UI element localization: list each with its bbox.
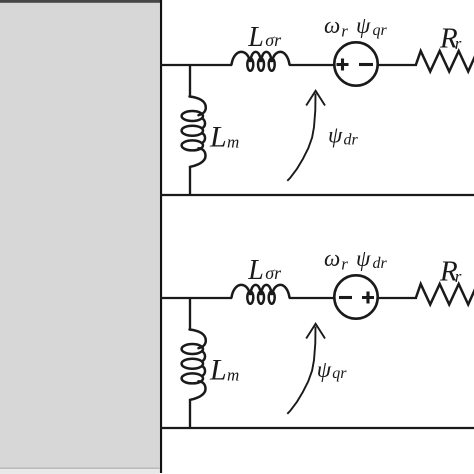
svg-text:m: m (227, 132, 239, 151)
wire: Lm top stub (189, 297, 191, 330)
wire: Lm top stub (189, 64, 191, 97)
inductor Lσr (232, 52, 290, 71)
panel bottom light strip (0, 469, 160, 474)
wire: Lm bottom stub (189, 167, 191, 196)
inductor Lm (182, 97, 206, 167)
svg-text:ψ: ψ (317, 357, 332, 382)
svg-text:qr: qr (373, 22, 388, 39)
svg-text:ω: ω (324, 246, 340, 271)
svg-text:r: r (455, 34, 462, 53)
svg-text:L: L (247, 255, 264, 286)
plus sign (right) (362, 292, 374, 304)
svg-text:r: r (341, 21, 348, 40)
wire: left segment of top rail (160, 297, 232, 299)
wire: left segment of top rail (160, 64, 232, 66)
svg-text:L: L (209, 121, 227, 154)
svg-text:σr: σr (265, 30, 282, 50)
svg-text:r: r (455, 267, 462, 286)
svg-text:dr: dr (344, 132, 359, 149)
wire: source to resistor (379, 64, 418, 66)
svg-text:L: L (247, 22, 264, 53)
minus sign (right) (359, 63, 373, 66)
svg-text:dr: dr (373, 255, 388, 272)
resistor Rr (416, 51, 474, 72)
inductor Lσr (232, 285, 290, 304)
flux arrow head (306, 91, 325, 106)
svg-text:r: r (341, 254, 348, 273)
flux arrow stem (287, 327, 315, 414)
wire: bottom rail (160, 194, 474, 196)
wire: coil to source (289, 297, 335, 299)
wire: coil to source (289, 64, 335, 66)
flux arrow head (306, 324, 325, 339)
voltage source circle (334, 42, 377, 85)
svg-text:L: L (209, 354, 227, 387)
panel top dark bar (0, 0, 162, 3)
svg-text:m: m (227, 365, 239, 384)
voltage source circle (334, 275, 377, 318)
gray panel (left block) (0, 3, 160, 468)
svg-text:ψ: ψ (356, 13, 371, 38)
svg-text:qr: qr (332, 365, 347, 382)
svg-text:ω: ω (324, 13, 340, 38)
svg-text:ψ: ψ (356, 246, 371, 271)
wire: source to resistor (379, 297, 418, 299)
resistor Rr (416, 284, 474, 305)
panel bottom edge line (0, 468, 160, 470)
minus sign (left) (339, 296, 352, 299)
flux arrow stem (287, 94, 315, 181)
panel right border (160, 0, 162, 473)
plus sign (left) (337, 59, 349, 71)
inductor Lm (182, 330, 206, 400)
wire: Lm bottom stub (189, 400, 191, 429)
svg-text:σr: σr (265, 263, 282, 283)
wire: bottom rail (160, 427, 474, 429)
svg-text:ψ: ψ (328, 123, 343, 148)
